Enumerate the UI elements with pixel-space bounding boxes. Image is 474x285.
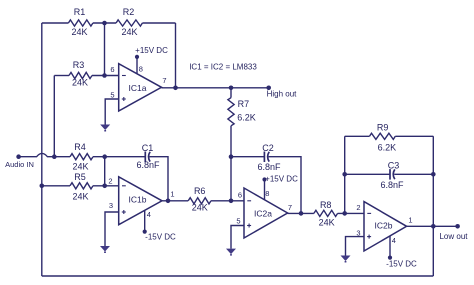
- node C3 right junction: [431, 172, 436, 177]
- svg-text:IC1a: IC1a: [129, 83, 147, 93]
- svg-text:IC2b: IC2b: [375, 221, 393, 231]
- svg-text:Audio IN: Audio IN: [5, 160, 34, 169]
- pin 7 label IC2a: [288, 203, 292, 212]
- svg-text:24K: 24K: [121, 27, 137, 37]
- node R7 top junction: [229, 86, 234, 91]
- pin 5 label IC1a: [110, 91, 114, 100]
- node R1-R2 junction: [102, 21, 107, 26]
- svg-text:IC1b: IC1b: [129, 195, 147, 205]
- node High out terminal: [266, 86, 271, 91]
- svg-text:IC2a: IC2a: [254, 208, 272, 218]
- wire R4 to C1 node: [93, 156, 145, 158]
- wire IC1a pin8 supply stub: [136, 57, 138, 74]
- op-amp U1 IC1a: [119, 64, 162, 111]
- wire R3 left riser to audio node: [53, 76, 55, 157]
- label Low out: [439, 232, 468, 241]
- wire IC1a pin5 to ground: [105, 99, 119, 125]
- wire R2 right riser to IC1a output: [175, 23, 177, 88]
- svg-text:R8: R8: [320, 200, 332, 210]
- svg-text:8: 8: [139, 65, 143, 74]
- node Low out terminal: [455, 224, 460, 229]
- svg-text:24K: 24K: [72, 191, 88, 201]
- wire IC1b pin3 to ground: [105, 212, 119, 246]
- wire IC2a pin5 to ground: [231, 226, 244, 249]
- svg-text:R2: R2: [123, 7, 135, 17]
- svg-text:7: 7: [162, 76, 166, 85]
- pin 2 label IC1b: [108, 177, 112, 186]
- svg-text:-15V DC: -15V DC: [145, 232, 176, 241]
- svg-text:+15V DC: +15V DC: [265, 175, 298, 184]
- pin 1 label IC1b: [170, 190, 174, 199]
- wire riser to IC1b inverting input: [104, 157, 106, 186]
- resistor R6: [188, 186, 211, 212]
- svg-text:R4: R4: [74, 142, 86, 152]
- wire IC2b pin3 to ground: [346, 237, 365, 256]
- svg-text:IC1 = IC2 = LM833: IC1 = IC2 = LM833: [189, 63, 257, 72]
- ground IC1a pin5: [100, 125, 110, 132]
- op-amp U3 IC2a: [244, 188, 288, 238]
- resistor R2: [116, 7, 142, 37]
- label -15V DC IC1b: [145, 232, 176, 241]
- resistor R3: [69, 60, 92, 88]
- node -15V terminal IC1b: [143, 230, 147, 234]
- pin 1 label IC2b: [408, 215, 412, 224]
- node +15V terminal IC2a: [262, 177, 266, 181]
- pin 3 label IC2b: [356, 229, 360, 238]
- svg-text:R7: R7: [238, 99, 250, 109]
- wire audio input line with hop over left rail: [19, 153, 70, 156]
- resistor R4: [70, 142, 93, 171]
- svg-text:6: 6: [238, 190, 242, 199]
- ground IC2a pin5: [226, 249, 236, 256]
- svg-text:3: 3: [109, 201, 113, 210]
- svg-text:6.8nF: 6.8nF: [136, 160, 160, 170]
- node IC1b pin2 junction: [102, 184, 107, 189]
- node low out feedback junction: [431, 224, 436, 229]
- wire riser R1R2 junction to IC1a inverting input: [104, 23, 106, 76]
- svg-text:6.8nF: 6.8nF: [257, 162, 281, 172]
- wire C2 right riser to IC2a output: [269, 157, 301, 214]
- svg-text:C3: C3: [388, 161, 400, 171]
- capacitor C1: [136, 143, 160, 170]
- node IC1a output feedback junction: [173, 86, 178, 91]
- svg-text:R5: R5: [74, 172, 86, 182]
- pin 4 label IC2b: [392, 236, 396, 245]
- node R5 left rail junction: [40, 184, 45, 189]
- svg-text:C2: C2: [262, 143, 274, 153]
- svg-text:6.8nF: 6.8nF: [380, 180, 404, 190]
- node IC2b pin2 junction: [342, 211, 347, 216]
- wire IC1b pin4 supply stub: [144, 210, 146, 231]
- svg-text:6.2K: 6.2K: [378, 143, 397, 153]
- node C2 left junction: [229, 154, 234, 159]
- wire IC1b inverting input line R5: [42, 185, 119, 187]
- node audio input junction: [52, 154, 57, 159]
- node C3 left junction: [342, 172, 347, 177]
- label +15V DC IC1a: [135, 46, 168, 55]
- node IC2a pin6 junction: [229, 199, 234, 204]
- svg-text:4: 4: [392, 236, 396, 245]
- svg-text:6: 6: [110, 65, 114, 74]
- svg-text:R3: R3: [73, 60, 85, 70]
- label +15V DC IC2a: [265, 175, 298, 184]
- node R4/C1/R5 riser junction: [102, 154, 107, 159]
- pin 7 label IC1a: [162, 76, 166, 85]
- svg-text:C1: C1: [142, 143, 154, 153]
- wire C1 right to IC1b output riser: [150, 157, 169, 201]
- svg-text:4: 4: [147, 210, 151, 219]
- svg-text:8: 8: [265, 189, 269, 198]
- label Audio IN: [5, 160, 34, 169]
- svg-text:High out: High out: [267, 89, 298, 98]
- wire top rail R1-R2: [42, 22, 176, 24]
- svg-text:Low out: Low out: [439, 232, 468, 241]
- node +15V terminal IC1a: [135, 55, 139, 59]
- ground IC2b pin3: [341, 256, 351, 263]
- wire right output riser: [432, 136, 434, 276]
- node IC2a output junction: [299, 211, 304, 216]
- svg-text:24K: 24K: [71, 27, 87, 37]
- svg-text:2: 2: [356, 203, 360, 212]
- label IC1 = IC2 = LM833: [189, 63, 257, 72]
- capacitor C2: [231, 143, 281, 172]
- svg-text:7: 7: [288, 203, 292, 212]
- wire IC1b output line to IC2a: [162, 200, 244, 202]
- wire IC2b pin4 supply stub: [389, 236, 391, 258]
- svg-text:R1: R1: [74, 7, 86, 17]
- resistor R5: [70, 172, 93, 201]
- wire IC2a output line to IC2b: [288, 212, 364, 214]
- pin 3 label IC1b: [109, 201, 113, 210]
- wire IC2a pin8 supply stub: [264, 180, 266, 200]
- svg-text:R9: R9: [377, 123, 389, 133]
- node IC1a pin6 junction: [102, 73, 107, 78]
- svg-text:24K: 24K: [192, 202, 208, 212]
- svg-text:+15V DC: +15V DC: [135, 46, 168, 55]
- pin 8 label IC1a: [139, 65, 143, 74]
- wire R9/C3 left riser: [344, 136, 346, 213]
- wire bottom feedback rail: [42, 275, 434, 277]
- svg-text:24K: 24K: [72, 78, 88, 88]
- svg-text:6.2K: 6.2K: [237, 113, 256, 123]
- wire IC1a output / high out rail: [162, 87, 269, 89]
- svg-text:1: 1: [408, 215, 412, 224]
- node -15V terminal IC2b: [388, 256, 392, 260]
- pin 5 label IC2a: [236, 217, 240, 226]
- node IC1b output junction: [166, 199, 171, 204]
- pin 8 label IC2a: [265, 189, 269, 198]
- wire left feedback rail: [41, 23, 43, 276]
- svg-text:2: 2: [108, 177, 112, 186]
- pin 6 label IC1a: [110, 65, 114, 74]
- op-amp U2 IC1b: [119, 177, 162, 225]
- svg-text:-15V DC: -15V DC: [386, 260, 417, 269]
- label High out: [267, 89, 298, 98]
- svg-text:1: 1: [170, 190, 174, 199]
- wire IC1a inverting input line: [54, 75, 118, 77]
- node Audio IN terminal: [16, 154, 21, 159]
- resistor R9: [345, 123, 434, 153]
- capacitor C3: [345, 161, 434, 190]
- resistor R8: [314, 200, 338, 228]
- svg-text:24K: 24K: [72, 161, 88, 171]
- pin 4 label IC1b: [147, 210, 151, 219]
- pin 2 label IC2b: [356, 203, 360, 212]
- resistor R7: [228, 88, 256, 157]
- svg-text:24K: 24K: [319, 218, 335, 228]
- label -15V DC IC2b: [386, 260, 417, 269]
- pin 6 label IC2a: [238, 190, 242, 199]
- wire IC2b output / low out: [407, 225, 458, 227]
- ground IC1b pin3: [100, 246, 110, 253]
- svg-text:5: 5: [236, 217, 240, 226]
- svg-text:R6: R6: [194, 186, 206, 196]
- wire R7/C2 node riser to IC2a input: [230, 157, 232, 201]
- resistor R1: [68, 7, 93, 37]
- op-amp U4 IC2b: [364, 202, 407, 251]
